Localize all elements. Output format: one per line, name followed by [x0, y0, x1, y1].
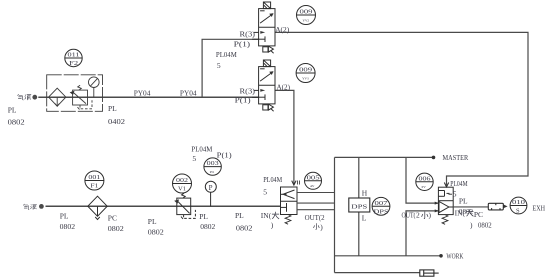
svg-text:S: S	[516, 208, 520, 215]
svg-text:0802: 0802	[108, 224, 124, 233]
svg-text:005: 005	[307, 174, 320, 181]
svg-text:PL04M: PL04M	[191, 145, 212, 154]
svg-text:P(1): P(1)	[235, 96, 252, 105]
svg-text:OUT(2: OUT(2	[305, 213, 325, 222]
svg-text:P(1): P(1)	[217, 151, 233, 160]
svg-text:OUT(: OUT(	[402, 211, 416, 220]
svg-text:DPS: DPS	[374, 208, 389, 215]
svg-text:PV: PV	[422, 185, 427, 189]
svg-text:003: 003	[207, 160, 219, 167]
svg-text:YV2: YV2	[303, 19, 310, 23]
svg-text:PI1: PI1	[210, 170, 215, 174]
svg-text:PL: PL	[108, 104, 117, 113]
svg-text:F1: F1	[90, 182, 98, 189]
svg-text:P(1): P(1)	[234, 40, 251, 49]
svg-text:PL: PL	[8, 105, 17, 114]
svg-text:H: H	[362, 188, 368, 197]
svg-text:IN(: IN(	[261, 211, 272, 220]
svg-text:A(2): A(2)	[275, 25, 289, 34]
svg-text:007: 007	[375, 200, 389, 207]
svg-text:PL04M: PL04M	[216, 50, 237, 59]
svg-text:PL04M: PL04M	[450, 179, 468, 188]
svg-text:009: 009	[299, 67, 312, 74]
svg-text:PL04M: PL04M	[263, 175, 282, 184]
svg-text:0802: 0802	[478, 220, 492, 229]
svg-text:IN(: IN(	[455, 209, 466, 218]
svg-text:2: 2	[416, 211, 420, 220]
svg-text:V1: V1	[178, 185, 186, 192]
svg-text:011: 011	[68, 52, 80, 59]
svg-text:0802: 0802	[60, 222, 76, 231]
svg-text:0802: 0802	[200, 222, 215, 231]
svg-text:PL: PL	[60, 211, 69, 220]
svg-text:PY04: PY04	[134, 88, 151, 97]
svg-text:R(3): R(3)	[240, 87, 256, 96]
svg-text:P: P	[209, 184, 213, 192]
svg-text:0402: 0402	[108, 117, 125, 126]
svg-text:PY04: PY04	[180, 88, 197, 97]
svg-text:PC: PC	[108, 213, 117, 222]
svg-text:DPS: DPS	[351, 204, 367, 211]
svg-text:PC: PC	[474, 210, 483, 219]
svg-text:0802: 0802	[8, 117, 25, 126]
svg-text:5: 5	[453, 190, 457, 199]
svg-text:AV: AV	[310, 184, 315, 188]
svg-text:5: 5	[263, 188, 267, 197]
svg-text:EXH: EXH	[533, 203, 546, 212]
svg-text:002: 002	[176, 177, 188, 184]
svg-text:5: 5	[192, 154, 196, 163]
svg-text:006: 006	[419, 175, 432, 182]
svg-text:WORK: WORK	[446, 251, 463, 260]
svg-text:L: L	[362, 214, 367, 223]
svg-text:F2: F2	[69, 60, 78, 67]
svg-text:0802: 0802	[148, 228, 164, 237]
svg-text:PL: PL	[199, 212, 208, 221]
svg-text:PL: PL	[459, 197, 468, 206]
svg-text:001: 001	[88, 174, 100, 181]
svg-text:0802: 0802	[236, 224, 253, 233]
svg-text:009: 009	[300, 9, 313, 16]
svg-text:MASTER: MASTER	[443, 153, 469, 162]
svg-text:5: 5	[217, 61, 221, 70]
svg-text:A(2): A(2)	[277, 83, 291, 92]
svg-text:R(3): R(3)	[240, 30, 256, 39]
svg-text:PL: PL	[235, 211, 244, 220]
svg-text:PL: PL	[148, 217, 157, 226]
svg-text:YV3: YV3	[302, 77, 309, 81]
svg-text:010: 010	[512, 199, 525, 206]
